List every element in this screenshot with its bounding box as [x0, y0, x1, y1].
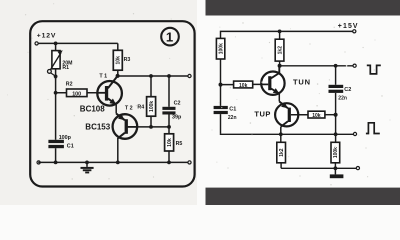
svg-text:10k: 10k — [239, 83, 248, 89]
wire lower output line — [221, 133, 354, 135]
wire bottom rail right — [281, 167, 356, 169]
transistor T1 BC108 — [80, 73, 122, 113]
node 10k to C2 line — [334, 113, 338, 117]
panel border — [30, 21, 194, 186]
node R4 bottom — [149, 125, 153, 129]
svg-text:10k: 10k — [312, 113, 321, 119]
node C2 bottom — [167, 125, 171, 129]
trimmer R1 20M — [48, 43, 73, 79]
svg-text:T 2: T 2 — [125, 105, 133, 111]
node 10k tap — [219, 83, 223, 87]
resistor 10k TUP base — [308, 111, 336, 119]
scan speckles — [7, 3, 391, 185]
resistor R2 100 — [56, 82, 98, 98]
svg-text:R4: R4 — [137, 105, 144, 111]
wire 100k down to C1 — [220, 59, 222, 106]
terminal lower output — [353, 132, 356, 135]
node TUN collector — [278, 64, 282, 68]
svg-text:R3: R3 — [124, 57, 131, 63]
capacitor C1 100p — [48, 135, 73, 163]
svg-text:1k2: 1k2 — [277, 46, 283, 55]
terminal mid rail output — [188, 74, 191, 77]
svg-text:22n: 22n — [228, 115, 237, 121]
node T2 bottom — [116, 161, 120, 165]
wire left vertical — [55, 76, 57, 139]
svg-text:C1: C1 — [67, 143, 74, 149]
svg-text:+15V: +15V — [338, 23, 359, 30]
svg-text:+12V: +12V — [37, 33, 56, 40]
svg-text:100k: 100k — [149, 101, 155, 112]
wire TUP collector down — [280, 127, 282, 135]
wire mid rail — [118, 75, 188, 77]
svg-text:TUP: TUP — [254, 110, 271, 119]
wire top rail right — [221, 31, 353, 38]
node at R2 tap — [54, 91, 58, 95]
resistor R4 100k — [137, 76, 155, 127]
resistor 1k2 upper — [275, 31, 284, 65]
transistor TUP — [254, 102, 308, 127]
svg-text:T 1: T 1 — [99, 73, 107, 79]
svg-text:100: 100 — [72, 91, 81, 97]
wire T2 base node — [137, 126, 169, 128]
wire TUN emitter to TUP — [278, 94, 280, 102]
svg-text:TUN: TUN — [293, 78, 311, 87]
capacitor C1 22n — [214, 106, 237, 134]
resistor 10k TUN base — [221, 81, 262, 89]
top gray bar — [206, 0, 400, 16]
badge circle 1 — [161, 28, 179, 46]
node ground — [334, 166, 338, 170]
svg-text:BC108: BC108 — [80, 104, 105, 113]
wire bottom rail — [38, 161, 188, 163]
svg-text:BC153: BC153 — [85, 122, 110, 131]
wire T1 emitter to T2 — [115, 105, 117, 114]
terminal +12V — [35, 42, 38, 45]
svg-text:1k2: 1k2 — [279, 148, 285, 157]
ground right panel — [330, 168, 344, 178]
capacitor C2 39p — [162, 76, 182, 127]
wire T2 collector down — [117, 138, 119, 162]
node below R1 — [54, 75, 58, 79]
svg-text:C2: C2 — [344, 87, 351, 93]
svg-text:39p: 39p — [172, 115, 182, 121]
node 1k2 top — [278, 30, 282, 34]
node C2 top — [167, 74, 171, 78]
svg-text:R5: R5 — [176, 141, 183, 147]
ground left panel — [81, 161, 94, 174]
capacitor C2 22n — [329, 66, 352, 135]
svg-text:C1: C1 — [229, 106, 236, 112]
node C1 bottom — [54, 161, 58, 165]
wire top rail — [38, 42, 118, 44]
svg-text:100p: 100p — [59, 135, 72, 141]
svg-text:1: 1 — [166, 29, 173, 44]
wire collector rail to output — [280, 65, 353, 67]
resistor R5 10k — [165, 127, 183, 162]
resistor 1k2 lower — [277, 134, 286, 168]
node R5 bottom — [167, 161, 171, 165]
terminal bottom left — [37, 161, 40, 164]
waveform symbol lower (positive pulse) — [366, 123, 380, 134]
svg-text:C2: C2 — [174, 101, 181, 107]
svg-text:100k: 100k — [218, 43, 224, 54]
node 100k top — [334, 132, 338, 136]
terminal bottom right output — [356, 167, 359, 170]
resistor 100k upper left — [216, 38, 224, 59]
svg-text:22n: 22n — [338, 96, 347, 102]
terminal +15V — [353, 30, 356, 33]
svg-text:R2: R2 — [66, 82, 73, 88]
node top of R1 — [54, 42, 58, 46]
node C2 top — [334, 64, 338, 68]
node TUP collector line — [279, 132, 283, 136]
resistor 100k lower — [331, 134, 340, 168]
terminal upper output — [353, 64, 356, 67]
resistor R3 10k — [113, 43, 130, 76]
bottom gray bar — [206, 188, 400, 205]
terminal bottom right — [188, 161, 191, 164]
svg-text:10k: 10k — [167, 138, 173, 147]
svg-text:R1: R1 — [62, 65, 69, 71]
node R4 top — [149, 74, 153, 78]
transistor T2 BC153 — [85, 105, 137, 139]
transistor TUN — [261, 66, 311, 95]
node T1 collector — [116, 74, 120, 78]
svg-text:100k: 100k — [333, 147, 339, 158]
waveform symbol upper (negative pulse) — [367, 65, 381, 74]
svg-text:10k: 10k — [116, 56, 122, 65]
